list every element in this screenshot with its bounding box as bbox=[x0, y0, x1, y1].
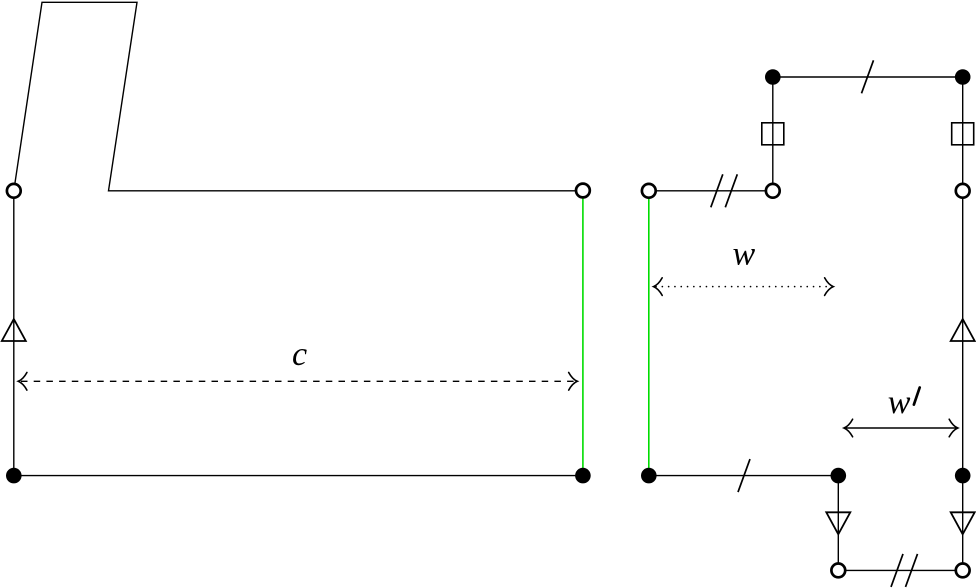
svg-text:w: w bbox=[888, 384, 911, 421]
node A open circle bbox=[7, 184, 21, 198]
node O open circle bbox=[956, 564, 970, 578]
marker: square on edge H-J bbox=[762, 123, 784, 145]
marker: up triangle on left edge bbox=[2, 319, 26, 341]
marker: double slash on edge J-K bbox=[711, 174, 723, 207]
marker: down triangle on edge O-P bbox=[951, 512, 975, 534]
right polygon: bottom edge N-O bbox=[838, 569, 962, 571]
node L filled circle bbox=[641, 468, 657, 484]
arrowhead right of w' arrow bbox=[949, 419, 958, 437]
right polygon: edge H-J bbox=[772, 77, 774, 191]
node Q open circle bbox=[956, 184, 970, 198]
node F filled circle bbox=[575, 468, 591, 484]
label w prime tick bbox=[914, 388, 920, 405]
svg-text:w: w bbox=[733, 236, 756, 273]
node P filled circle bbox=[955, 468, 971, 484]
marker: up triangle on edge P-Q bbox=[951, 319, 975, 341]
left polygon: green edge E-F bbox=[582, 191, 584, 476]
marker: single slash on top edge bbox=[862, 60, 874, 93]
arrowhead left of w arrow bbox=[654, 278, 663, 296]
svg-text:c: c bbox=[292, 336, 307, 373]
right polygon: bottom edge L-M bbox=[649, 475, 839, 477]
right polygon: right edge O-I (through P and Q) bbox=[962, 77, 964, 570]
arrowhead left of w' arrow bbox=[844, 419, 853, 437]
node H filled circle bbox=[765, 69, 781, 85]
arrowhead right of c arrow bbox=[569, 373, 578, 391]
marker: square on edge Q-I bbox=[952, 123, 974, 145]
dotted measure arrow w line bbox=[656, 286, 831, 288]
node M filled circle bbox=[831, 468, 847, 484]
right polygon: top edge H-I bbox=[773, 76, 963, 78]
right polygon: green edge K-L bbox=[648, 191, 650, 476]
marker: double slash on edge N-O bbox=[891, 554, 903, 587]
left polygon outline (chimney + body) bbox=[14, 2, 583, 191]
right polygon: edge J-K bbox=[649, 190, 773, 192]
marker: down triangle on edge M-N bbox=[826, 512, 850, 534]
solid measure arrow w' line bbox=[845, 427, 957, 429]
node N open circle bbox=[831, 564, 845, 578]
node G filled circle bbox=[6, 468, 22, 484]
dashed measure arrow c line bbox=[21, 380, 575, 382]
arrowhead right of w arrow bbox=[825, 278, 834, 296]
left polygon: bottom edge F-G bbox=[14, 475, 583, 477]
arrowhead left of c arrow bbox=[18, 373, 27, 391]
right polygon: edge M-N bbox=[837, 476, 839, 571]
node I filled circle bbox=[955, 69, 971, 85]
left polygon: left edge G-A bbox=[13, 191, 15, 476]
marker: single slash on edge L-M bbox=[738, 459, 750, 492]
node K open circle bbox=[642, 184, 656, 198]
node J open circle bbox=[766, 184, 780, 198]
node E open circle bbox=[576, 184, 590, 198]
